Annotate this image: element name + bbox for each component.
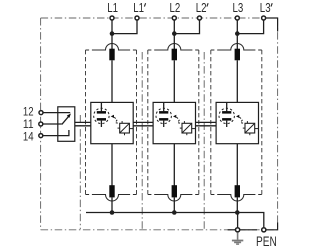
svg-text:PEN: PEN [256,234,277,249]
terminal L1´ [135,16,139,20]
spark gap upper lead [226,102,228,111]
upper thermal disconnector [109,49,114,61]
junction node L3 [235,31,240,36]
module dashed enclosure bottom edge with bushing dip [148,195,199,202]
wire L2 terminal down to junction [173,20,175,33]
wire L1 terminal down to junction [111,20,113,33]
trigger arrow head [111,115,114,118]
SPD path phase L3 [211,1,272,215]
wire junction to upper disconnector [236,34,238,49]
section separator (dash-dot) [79,115,81,229]
spark gap dashed circle [219,108,234,123]
module dashed enclosure top edge with bushing bump [211,44,262,51]
terminal L3 [235,16,239,20]
contact box [58,107,75,142]
monitoring bus wire (lower) [196,125,217,127]
module dashed enclosure right edge [261,50,263,195]
upper thermal disconnector [172,49,177,61]
spark gap electrodes [159,111,168,114]
label L3´ [260,1,272,15]
svg-text:L1: L1 [107,1,118,15]
enclosure boundary top (dash-dot) [41,17,278,19]
wire junction to L2´ terminal [174,20,199,33]
spark gap electrodes [97,111,106,114]
monitoring bus wire (lower) [75,125,91,127]
wire disconnector to module [236,60,238,102]
wire L3' to boundary corner [266,18,278,32]
protection module box [153,102,195,143]
enclosure boundary bottom (dash-dot) [41,229,278,231]
module dashed enclosure right edge [136,50,138,195]
trigger arrow head [236,115,239,118]
terminal L1 [110,16,114,20]
terminal L2´ [198,16,202,20]
contact lever with arrow [62,116,69,124]
wire earth terminal segments on boundary [228,229,236,231]
svg-text:L1: L1 [133,1,144,15]
terminal PEN [262,228,266,232]
wire terminal 12 to fixed contact [43,112,70,114]
trigger arrow head [173,115,176,118]
spark gap lower lead [100,121,102,127]
junction node L2 [172,31,177,36]
wire module to lower disconnector [236,144,238,186]
section separator (dash-dot) [203,52,205,229]
junction node L1 [110,31,115,36]
lower thermal disconnector [172,185,177,197]
module dashed enclosure top edge with bushing bump [148,44,199,51]
trigger electronics unit [118,121,134,135]
terminal L3´ [262,16,266,20]
module dashed enclosure right edge [198,50,200,195]
module dashed enclosure left edge [210,50,212,195]
spark gap upper lead [163,102,165,111]
svg-text:L2: L2 [170,1,181,15]
wire disconnector to PEN bus [111,197,113,212]
enclosure boundary right (dash-dot) [277,18,279,230]
wire disconnector to module [173,60,175,102]
spark gap upper lead [100,102,102,111]
trigger dashed zigzag [177,117,183,124]
trigger electronics unit [243,121,259,135]
protection module box [216,102,258,143]
monitoring bus wire (upper) [75,121,91,123]
wire PEN terminal to boundary corner [266,223,277,230]
protection module box [91,102,133,143]
enclosure boundary left (dash-dot) [40,18,42,230]
module dashed enclosure bottom edge with bushing dip [86,195,137,202]
wire disconnector to PEN bus [236,197,238,212]
terminal 11 [39,122,43,126]
wire junction to L1´ terminal [112,20,137,33]
svg-text:14: 14 [23,130,34,144]
lower thermal disconnector [235,185,240,197]
junction node on PEN bus [110,210,115,215]
terminal 14 [39,134,43,138]
module dashed enclosure bottom edge with bushing dip [211,195,262,202]
lower thermal disconnector [109,185,114,197]
junction node on PEN bus [235,210,240,215]
wire disconnector to PEN bus [173,197,175,212]
earth terminal [236,228,240,232]
trigger dashed zigzag [240,117,246,124]
wire junction to upper disconnector [173,34,175,49]
wire terminal 14 to fixed contact hook [43,130,69,136]
module dashed enclosure top edge with bushing bump [86,44,137,51]
SPD path phase L2 [148,1,208,215]
label L2´ [196,1,208,15]
svg-text:L3: L3 [260,1,271,15]
module dashed enclosure left edge [85,50,87,195]
terminal L2 [172,16,176,20]
wire L3 terminal down to junction [236,20,238,33]
remote signalling changeover contact [43,107,75,142]
spark gap electrodes [222,111,231,114]
svg-text:L2: L2 [196,1,207,15]
svg-text:L3: L3 [233,1,244,15]
monitoring bus wire (upper) [196,121,217,123]
trigger electronics unit [180,121,196,135]
wire bus to earth terminal [237,213,239,228]
module dashed enclosure left edge [147,50,149,195]
junction node on PEN bus [172,210,177,215]
earth ground symbol [232,232,243,244]
wire junction to upper disconnector [111,34,113,49]
spark gap lower lead [226,121,228,127]
wire terminal 11 to lever [43,123,62,125]
section separator (dash-dot) [141,52,143,229]
wire disconnector to module [111,60,113,102]
monitoring bus wire (lower) [133,125,153,127]
SPD path phase L1 [86,1,146,215]
PEN bus wire [86,213,264,228]
wire module to lower disconnector [173,144,175,186]
upper thermal disconnector [235,49,240,61]
label L1´ [133,1,145,15]
spark gap dashed circle [156,108,171,123]
terminal 12 [39,111,43,115]
wire module to lower disconnector [111,144,113,186]
spark gap dashed circle [94,108,109,123]
monitoring bus wire (upper) [133,121,153,123]
wire junction to L3´ terminal [237,20,263,33]
spark gap lower lead [163,121,165,127]
trigger dashed zigzag [114,117,120,124]
